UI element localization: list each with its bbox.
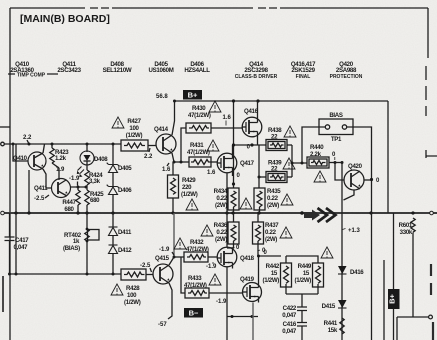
wire bus1 y=144 [1,142,121,146]
wire Q410 collector to bus1 [43,144,45,153]
wire rail to Q415 collector (vertical x=174) [173,213,175,257]
wire drive column x=233.5 from B+ bus to R434 [233,101,235,188]
label -1.9 under R433 [216,299,227,305]
mosfet Q417 [217,145,237,176]
wire R427 to Q414 base [148,145,156,147]
warning triangle R429 [186,199,198,210]
label 2.2 Q414 base [144,154,153,160]
warning triangle R438 [284,126,296,137]
warning triangle R437 [280,227,292,238]
wire Q417 source to output bus and Q418 drain [226,174,228,248]
warning triangle R435 [281,194,293,205]
resistor R425 680 [85,187,89,213]
wire bottom rail R442/R449 [286,294,318,307]
label 1.6 under rail [162,167,171,173]
transistor Q410 [28,152,46,170]
warning triangle R430 [209,101,221,112]
wire vertical x=371 below bus [371,213,373,340]
wire B+ bus right vertical x=388 [387,101,389,213]
wire source node y=145 [234,144,267,146]
power B+ box [183,90,202,100]
wire vertical x=384 [383,260,385,340]
transistor Q420 [344,170,364,190]
mosfet Q416 [242,101,262,145]
border top [10,7,428,9]
warning triangle R427 [112,117,124,128]
TIMP COMP bracket [8,73,58,79]
warning triangle R433 [209,274,221,285]
diode D411 [109,213,118,245]
wire Q419 source down [252,303,254,340]
label 56.8 [156,94,168,100]
diode D415 [338,300,347,308]
node dots output bus [14,211,414,214]
power B+ vertical box [387,289,399,309]
label -57 [158,322,167,328]
warning triangle R432 [174,238,186,249]
label 2.2 on bus1 [23,135,32,141]
resistor R431 47(1/2W) (boxed) [189,157,211,167]
wire Q414 collector to B+ bus [172,101,175,135]
resistor R430 47(1/2W) (boxed) [181,123,211,161]
wire R438/R439 junction to R440 [292,145,307,177]
resistor R429 220 (boxed vertical) [168,162,179,213]
wire right edge thick dashes [431,264,433,340]
resistor R449 15 (boxed vertical) [286,256,324,294]
border right corner [426,8,437,158]
warning triangle R428 [111,284,123,295]
label 1.6 Q417 gate [207,170,216,176]
wire R430 to Q416 gate [211,127,242,129]
wire R431 to Q417 gate [211,161,217,163]
wire Q410 lower lead to output bus [28,170,30,213]
wire source rail under Q418/Q419 [227,316,258,318]
resistor R435 0.22 (boxed vertical) [254,145,265,213]
label -1.9 [69,176,80,182]
resistor R447 680 [76,187,80,213]
wire vertical x=393 through B+ [393,213,395,340]
zener D405 [107,144,120,187]
warning triangle R434 [240,198,252,209]
title MAIN(B) BOARD [20,13,110,25]
resistor R436 0.22 (boxed vertical) [227,213,239,248]
wire Q419 drain up to node / top rail [259,256,282,282]
border left [0,8,10,340]
LED D408 [77,144,94,177]
label -1.9 under R432 [206,264,217,270]
wire Q410 emitter down to Q411 base [43,169,52,188]
wire Q410 base [13,144,28,161]
transistor Q411 [52,179,71,198]
diode D412 [109,245,118,274]
label -1.9 above Q415 [159,247,170,253]
capacitor C422 [297,307,307,323]
resistor R438 22 (double boxed) [266,140,292,151]
label 1.6 Q416 gate [223,115,232,121]
label 1.9 [56,167,65,173]
mosfet Q419 [243,282,262,303]
resistor R423 1.2k [50,144,59,168]
transistor Q415 [153,264,173,284]
resistor R439 22 (double boxed) [259,172,292,183]
test point BIAS TP1 [302,119,372,213]
capacitor C417 [5,144,17,274]
resistor R428 (boxed) [121,269,153,280]
resistor R442 15 (boxed vertical) [281,256,292,294]
output arrows on bus [304,210,320,221]
resistor R601 330k [411,218,415,317]
mosfet Q418 [217,247,237,268]
label 0 at R440 right [332,152,344,164]
wire Q411 collector up to R423 [56,166,59,180]
wire Q411 right lead to R424/R425 junction [71,186,88,188]
wire Q418 source down [226,267,228,340]
label -2.5 Q415 base [140,263,151,269]
resistor R434 0.22 (boxed vertical) [228,188,239,213]
wire Q420 collector down through D416 column [342,163,354,340]
warning triangle R440 [314,171,326,182]
warning triangle R436 [201,225,213,236]
thermistor RT402 [85,213,99,274]
wire emitter rail y=162 [174,161,189,163]
wire bottom right connector [397,315,432,340]
resistor R424 3.3k [85,165,89,187]
label -2.5 [34,196,45,202]
resistor R432 47(1/2W) (boxed) [174,252,217,262]
wire Q420 right to vertical [364,179,372,181]
transistor Q414 [156,134,176,154]
warning triangle R439 [283,158,295,169]
resistor R437 0.22 (boxed vertical) [253,213,264,256]
warning triangle R431 [207,140,219,151]
wire R440 to Q420 base [335,163,344,181]
resistor R441 15k [340,318,344,334]
warning triangle R449 [321,247,333,258]
parts list header [10,61,362,80]
resistor R440 2.2k (double boxed) [307,157,335,168]
diode D416 [338,266,347,274]
wire B+ bus y=101 [175,100,389,102]
wire Q415 emitter down [168,283,172,319]
wire Q414 emitter to rail [172,153,174,162]
wire output bus y=213 [4,212,437,214]
power B- box [184,308,203,318]
label +1.3 [348,228,361,234]
capacitor C416 [297,323,307,340]
wire bus3 y=274 [10,273,121,275]
resistor R427 (boxed) [121,140,148,151]
node dots bus1 [12,143,115,146]
zener D406 [107,185,120,213]
resistor R433 47(1/2W) (boxed) [181,257,243,298]
wire left edge stub [2,276,4,312]
wire Q415 collector to node [169,257,174,265]
